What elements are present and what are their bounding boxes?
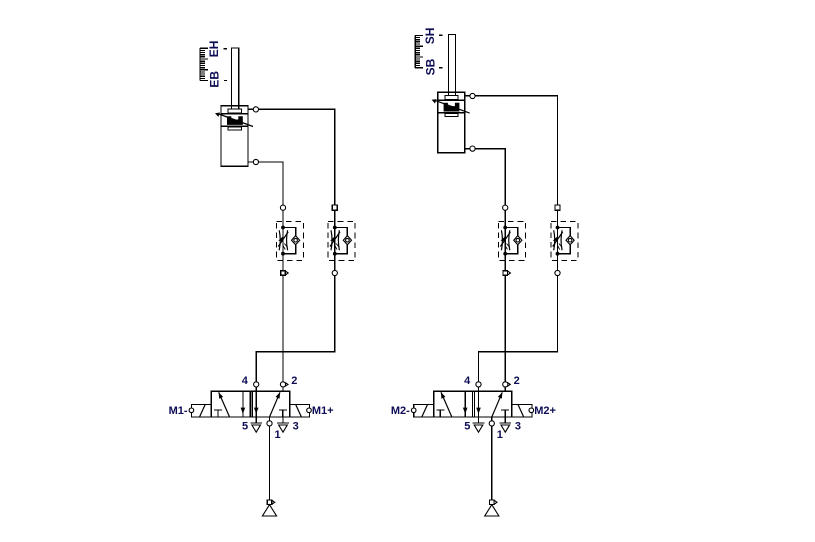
svg-text:3: 3 [515, 421, 521, 433]
svg-text:2: 2 [514, 375, 520, 387]
svg-text:SH: SH [423, 28, 437, 45]
svg-text:M1+: M1+ [312, 405, 334, 417]
svg-text:3: 3 [293, 421, 299, 433]
svg-text:5: 5 [464, 421, 470, 433]
svg-text:SB: SB [423, 58, 437, 75]
svg-text:4: 4 [464, 375, 471, 387]
svg-text:EH: EH [207, 41, 221, 58]
svg-text:5: 5 [242, 421, 248, 433]
svg-text:M2+: M2+ [534, 405, 556, 417]
svg-text:1: 1 [497, 429, 503, 441]
svg-text:M2-: M2- [391, 405, 410, 417]
svg-text:1: 1 [275, 429, 281, 441]
svg-text:2: 2 [291, 375, 297, 387]
svg-text:EB: EB [207, 71, 221, 88]
svg-text:M1-: M1- [169, 405, 188, 417]
svg-text:4: 4 [242, 375, 249, 387]
